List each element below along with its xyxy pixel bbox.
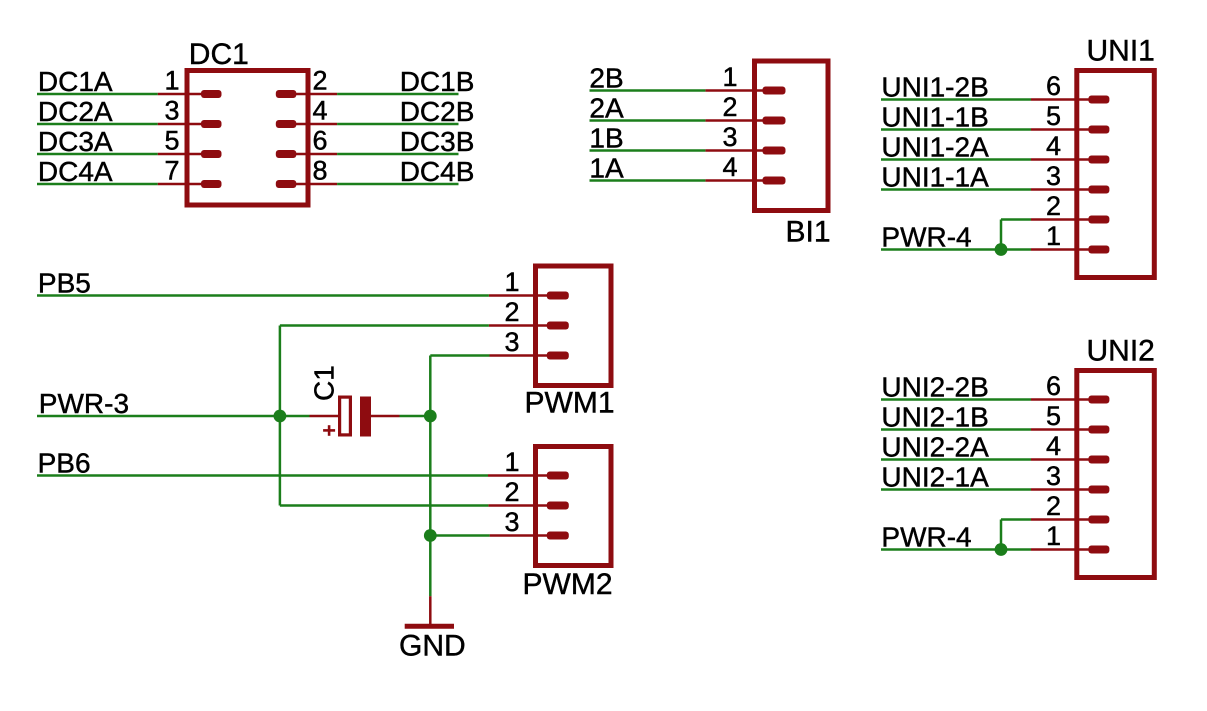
svg-text:PWR-4: PWR-4 [881, 522, 971, 553]
UNI2 pin 1 lead [1031, 548, 1092, 551]
DC1 pin 7 pad [201, 180, 222, 188]
svg-text:UNI1-2B: UNI1-2B [881, 72, 988, 103]
svg-text:DC4A: DC4A [38, 156, 113, 187]
svg-text:GND: GND [399, 629, 466, 662]
net PB6 wire [37, 474, 488, 477]
PWM1 pin 2 pad [547, 322, 569, 330]
capacitor C1 plus sign horizontal stroke [323, 429, 335, 432]
BI1 pin 1 pad [763, 87, 786, 95]
PWM2 pin 2 lead [488, 504, 550, 507]
DC1 pin 8 pad [276, 180, 297, 188]
svg-text:DC2B: DC2B [400, 96, 475, 127]
svg-text:BI1: BI1 [785, 216, 830, 249]
svg-text:2B: 2B [589, 63, 623, 94]
UNI1 pin 5 pad [1088, 126, 1109, 134]
svg-text:4: 4 [1046, 131, 1061, 161]
svg-text:1: 1 [164, 66, 179, 96]
svg-text:2: 2 [504, 477, 519, 507]
capacitor C1 left lead [310, 415, 341, 418]
DC1 pin 5 pad [201, 150, 222, 158]
net 1A wire [590, 179, 706, 182]
svg-text:UNI2: UNI2 [1087, 335, 1155, 368]
ground symbol bar [405, 624, 454, 629]
junction PWR-3 at vertical [274, 410, 287, 423]
svg-text:1: 1 [1046, 221, 1061, 251]
PWM1 pin 1 pad [547, 292, 569, 300]
UNI2 pin 6 pad [1088, 396, 1109, 404]
BI1 pin 4 pad [763, 177, 786, 185]
PWM1 pin 2 lead [489, 324, 550, 327]
net GND wire to PWM1 pin 3 [430, 354, 489, 357]
junction at UNI2 PWR-4 [995, 543, 1008, 556]
net PB5 wire [37, 294, 489, 297]
connector PWM1 body [536, 266, 612, 386]
BI1 pin 2 pad [763, 117, 786, 125]
BI1 pin 1 lead [705, 89, 766, 92]
net PWR-4 wire to UNI1 pin 1 [881, 248, 1031, 251]
net DC2B wire [337, 123, 458, 126]
net PWR-4 vertical wire at UNI1 [1000, 220, 1003, 250]
svg-text:3: 3 [1046, 161, 1061, 191]
svg-text:4: 4 [1046, 431, 1061, 461]
net DC3B wire [337, 153, 458, 156]
svg-text:3: 3 [164, 96, 179, 126]
svg-text:DC4B: DC4B [400, 156, 475, 187]
connector UNI1 body [1077, 71, 1155, 278]
svg-text:4: 4 [722, 152, 737, 182]
svg-text:C1: C1 [309, 365, 340, 401]
DC1 pin 8 lead [292, 183, 337, 186]
net UNI1-2A wire [881, 158, 1031, 161]
svg-text:8: 8 [313, 156, 328, 186]
svg-text:6: 6 [1046, 71, 1061, 101]
net UNI1-2B wire [881, 98, 1031, 101]
UNI2 pin 6 lead [1031, 398, 1092, 401]
UNI1 pin 1 lead [1031, 248, 1092, 251]
DC1 pin 5 lead [158, 153, 205, 156]
svg-text:DC2A: DC2A [38, 96, 113, 127]
UNI2 pin 3 lead [1031, 488, 1092, 491]
connector DC1 body [187, 71, 308, 206]
UNI1 pin 2 lead [1031, 218, 1092, 221]
net PWR-3 vertical wire [279, 326, 282, 506]
svg-text:1: 1 [722, 62, 737, 92]
net UNI1-1A wire [881, 188, 1031, 191]
svg-text:DC1: DC1 [189, 38, 249, 71]
capacitor C1 left plate [340, 397, 351, 435]
net PWR-3 wire to PWM1 pin 2 [280, 324, 489, 327]
svg-text:2: 2 [313, 66, 328, 96]
net PWR-4 wire to UNI2 pin 1 [881, 548, 1031, 551]
UNI1 pin 3 lead [1031, 188, 1092, 191]
UNI1 pin 3 pad [1088, 186, 1109, 194]
svg-text:7: 7 [164, 156, 179, 186]
svg-text:1A: 1A [589, 153, 624, 184]
PWM2 pin 1 pad [547, 472, 569, 480]
svg-text:PWR-4: PWR-4 [881, 222, 971, 253]
svg-text:3: 3 [504, 327, 519, 357]
svg-text:1: 1 [1046, 521, 1061, 551]
UNI2 pin 4 lead [1031, 458, 1092, 461]
svg-text:2: 2 [1046, 491, 1061, 521]
net GND vertical wire [429, 356, 432, 597]
capacitor C1 right plate [360, 397, 371, 437]
DC1 pin 2 pad [276, 90, 297, 98]
svg-text:UNI1-1A: UNI1-1A [881, 162, 989, 193]
net UNI2-2B wire [881, 398, 1031, 401]
svg-text:PB5: PB5 [38, 268, 91, 299]
svg-text:DC1B: DC1B [400, 66, 475, 97]
connector UNI2 body [1077, 371, 1155, 578]
svg-text:2A: 2A [589, 93, 624, 124]
net UNI1-1B wire [881, 128, 1031, 131]
UNI2 pin 2 pad [1088, 516, 1109, 524]
net PWR-3 wire to PWM2 pin 2 [280, 504, 489, 507]
net PWR-4 wire to UNI2 pin 2 [1001, 518, 1031, 521]
svg-text:5: 5 [1046, 401, 1061, 431]
net UNI2-1B wire [881, 428, 1031, 431]
UNI1 pin 2 pad [1088, 216, 1109, 224]
DC1 pin 1 lead [158, 93, 205, 96]
net 1B wire [590, 149, 706, 152]
UNI2 pin 5 lead [1031, 428, 1092, 431]
BI1 pin 3 pad [763, 147, 786, 155]
svg-text:UNI2-2A: UNI2-2A [881, 432, 989, 463]
net DC4B wire [337, 183, 458, 186]
junction C1 right at GND vertical [424, 410, 437, 423]
svg-text:UNI2-1B: UNI2-1B [881, 402, 988, 433]
BI1 pin 4 lead [705, 179, 766, 182]
PWM1 pin 3 lead [490, 354, 551, 357]
DC1 pin 6 lead [292, 153, 337, 156]
UNI1 pin 1 pad [1088, 246, 1109, 254]
capacitor C1 right lead [371, 415, 400, 418]
svg-text:2: 2 [1046, 191, 1061, 221]
junction at UNI1 PWR-4 [995, 243, 1008, 256]
net 2A wire [590, 119, 706, 122]
svg-text:1: 1 [504, 447, 519, 477]
net PWR-4 wire to UNI1 pin 2 [1001, 218, 1031, 221]
DC1 pin 3 lead [158, 123, 205, 126]
svg-text:DC3A: DC3A [38, 126, 113, 157]
connector BI1 body [755, 61, 829, 211]
net wire capacitor right to GND vertical [400, 415, 431, 418]
svg-text:5: 5 [164, 126, 179, 156]
svg-text:5: 5 [1046, 101, 1061, 131]
svg-text:2: 2 [722, 92, 737, 122]
svg-text:UNI1: UNI1 [1087, 35, 1155, 68]
UNI1 pin 4 lead [1031, 158, 1092, 161]
net DC1B wire [337, 93, 458, 96]
svg-text:2: 2 [504, 297, 519, 327]
UNI2 pin 3 pad [1088, 486, 1109, 494]
UNI2 pin 1 pad [1088, 546, 1109, 554]
svg-text:3: 3 [1046, 461, 1061, 491]
PWM1 pin 1 lead [489, 294, 550, 297]
UNI2 pin 4 pad [1088, 456, 1109, 464]
DC1 pin 6 pad [276, 150, 297, 158]
svg-text:4: 4 [313, 96, 328, 126]
DC1 pin 7 lead [158, 183, 205, 186]
net UNI2-2A wire [881, 458, 1031, 461]
UNI1 pin 5 lead [1031, 128, 1092, 131]
svg-text:6: 6 [1046, 371, 1061, 401]
net DC3A wire [37, 153, 158, 156]
net 2B wire [590, 89, 706, 92]
PWM2 pin 3 lead [490, 534, 550, 537]
svg-text:DC1A: DC1A [38, 66, 113, 97]
PWM1 pin 3 pad [547, 352, 569, 360]
net DC1A wire [37, 93, 158, 96]
svg-text:UNI1-2A: UNI1-2A [881, 132, 989, 163]
svg-text:PB6: PB6 [38, 448, 91, 479]
svg-text:3: 3 [722, 122, 737, 152]
svg-text:1B: 1B [589, 123, 623, 154]
net GND wire to PWM2 pin 3 [430, 534, 489, 537]
svg-text:PWR-3: PWR-3 [39, 388, 129, 419]
svg-text:UNI2-2B: UNI2-2B [881, 372, 988, 403]
capacitor C1 plus sign vertical stroke [328, 425, 331, 436]
svg-text:1: 1 [504, 267, 519, 297]
junction GND vertical at PWM2 pin 3 [424, 529, 437, 542]
PWM2 pin 2 pad [547, 502, 569, 510]
net PWR-4 vertical wire at UNI2 [1000, 520, 1003, 550]
svg-text:PWM2: PWM2 [523, 568, 613, 601]
connector PWM2 body [536, 447, 612, 566]
UNI2 pin 2 lead [1031, 518, 1092, 521]
net UNI2-1A wire [881, 488, 1031, 491]
PWM2 pin 1 lead [488, 474, 550, 477]
UNI2 pin 5 pad [1088, 426, 1109, 434]
net DC4A wire [37, 183, 158, 186]
DC1 pin 4 pad [276, 120, 297, 128]
svg-text:DC3B: DC3B [400, 126, 475, 157]
DC1 pin 1 pad [201, 90, 222, 98]
PWM2 pin 3 pad [547, 532, 569, 540]
DC1 pin 2 lead [292, 93, 337, 96]
DC1 pin 3 pad [201, 120, 222, 128]
svg-text:UNI1-1B: UNI1-1B [881, 102, 988, 133]
net PWR-3 horizontal wire [37, 415, 310, 418]
DC1 pin 4 lead [292, 123, 337, 126]
UNI1 pin 6 lead [1031, 98, 1092, 101]
UNI1 pin 4 pad [1088, 156, 1109, 164]
net DC2A wire [37, 123, 158, 126]
UNI1 pin 6 pad [1088, 96, 1109, 104]
svg-text:UNI2-1A: UNI2-1A [881, 462, 989, 493]
BI1 pin 3 lead [705, 149, 766, 152]
BI1 pin 2 lead [705, 119, 766, 122]
svg-text:3: 3 [504, 507, 519, 537]
svg-text:PWM1: PWM1 [525, 387, 615, 420]
svg-text:6: 6 [313, 126, 328, 156]
ground symbol pin lead [429, 596, 432, 626]
